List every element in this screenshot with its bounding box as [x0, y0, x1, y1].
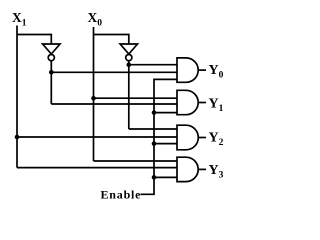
wire Y0 output stub — [198, 69, 206, 71]
svg-text:X1: X1 — [12, 10, 27, 28]
svg-text:Enable: Enable — [101, 187, 142, 201]
wire Enable to AND gate Y1 bottom input — [154, 112, 178, 114]
wire X0 to AND gate Y3 top input — [94, 160, 178, 162]
wire inverter U2 output vertical — [128, 61, 130, 129]
wire X0 to inverter input — [94, 35, 129, 45]
node junction dot Enable to Y3 — [152, 175, 157, 180]
AND gate Y2 — [177, 125, 198, 150]
node junction dot X0' to Y0 — [127, 62, 132, 67]
wire Enable to AND gate Y2 bottom input — [154, 143, 178, 145]
wire X1 to inverter input — [17, 35, 51, 45]
svg-text:Y2: Y2 — [209, 131, 224, 148]
inverter U1 (X1 NOT gate) triangle — [43, 44, 60, 54]
inverter U1 output bubble — [48, 55, 54, 61]
node junction dot X1 to Y2 — [15, 135, 20, 140]
node junction dot X1' to Y0 — [49, 70, 54, 75]
AND gate Y1 — [177, 90, 198, 114]
wire Enable vertical bus to Y0 bottom input — [141, 79, 178, 194]
wire X1 to AND gate Y2 middle input — [17, 136, 178, 138]
AND gate Y3 — [177, 157, 198, 181]
svg-text:X0: X0 — [88, 10, 103, 28]
wire X1 vertical bus — [16, 26, 18, 168]
wire X1 to AND gate Y3 middle input — [17, 167, 178, 169]
wire X0' to AND gate Y2 top input — [129, 128, 178, 130]
wire Enable to AND gate Y3 bottom input — [154, 176, 178, 178]
wire X1' to AND gate Y0 middle input — [51, 71, 177, 73]
wire inverter U1 output vertical — [50, 61, 52, 104]
wire X0' to AND gate Y0 top input — [129, 64, 178, 66]
wire Y2 output stub — [198, 137, 206, 139]
svg-text:Y0: Y0 — [209, 63, 224, 80]
wire X1' to AND gate Y1 middle input — [51, 103, 177, 105]
AND gate Y0 — [177, 58, 198, 82]
node junction dot Enable to Y1 — [152, 110, 157, 115]
node junction dot X0 to Y1 — [91, 96, 96, 101]
inverter U2 output bubble — [126, 55, 132, 61]
svg-text:Y3: Y3 — [209, 163, 224, 180]
wire X0 to AND gate Y1 top input — [94, 97, 178, 99]
node junction dot Enable to Y2 — [152, 141, 157, 146]
wire X0 vertical bus — [93, 27, 95, 161]
inverter U2 (X0 NOT gate) triangle — [120, 44, 137, 54]
wire Y3 output stub — [198, 168, 206, 170]
svg-text:Y1: Y1 — [209, 97, 224, 114]
wire Y1 output stub — [198, 102, 206, 104]
